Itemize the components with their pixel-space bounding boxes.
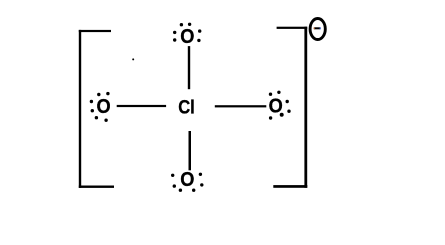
svg-text:O: O	[180, 169, 194, 191]
svg-text:Cl: Cl	[178, 96, 195, 118]
svg-text:O: O	[180, 26, 194, 48]
svg-text:O: O	[97, 96, 111, 118]
